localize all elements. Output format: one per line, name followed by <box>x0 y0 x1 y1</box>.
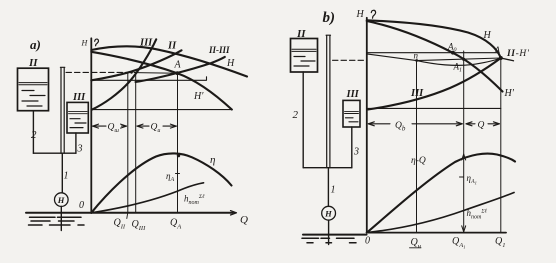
horizontal upper level line b <box>367 52 498 54</box>
svg-text:II: II <box>167 41 177 52</box>
guide line Qn <box>416 61 418 233</box>
svg-text:Н: Н <box>483 30 492 41</box>
guide line QIII <box>135 73 137 213</box>
pump curve H a <box>91 46 247 76</box>
pipe 3 <box>75 133 77 153</box>
svg-text:hпотΣℓ: hпотΣℓ <box>184 194 205 207</box>
ground / water line b <box>303 234 367 236</box>
line II wedge to p <box>367 54 417 61</box>
svg-text:п: п <box>414 51 419 61</box>
water hatching b <box>302 238 356 243</box>
x-axis arrowhead <box>226 212 235 214</box>
svg-text:ηА1: ηА1 <box>467 173 477 186</box>
svg-text:Н′: Н′ <box>193 91 204 102</box>
dashed level line b <box>333 59 367 61</box>
tank II water dashes <box>22 91 45 107</box>
svg-text:Qи: Qи <box>151 123 161 135</box>
junction manifold wire b <box>303 167 352 169</box>
svg-text:1: 1 <box>331 185 336 196</box>
pipe 1 lower b <box>327 168 329 207</box>
x-axis b <box>367 232 506 234</box>
svg-text:3: 3 <box>77 144 83 155</box>
tank III water dashes <box>70 119 86 128</box>
svg-text:А: А <box>174 60 182 71</box>
suction pipe <box>60 206 62 230</box>
pipe 3 b <box>351 127 353 168</box>
svg-text:Q: Q <box>240 214 248 226</box>
svg-text:Н: Н <box>324 209 332 219</box>
curve II <box>91 50 181 80</box>
tank II b <box>291 39 318 73</box>
water hatching a <box>29 217 85 225</box>
svg-text:0: 0 <box>79 200 84 211</box>
horizontal line level II <box>91 77 206 81</box>
dashed level line from pipe top <box>66 71 136 73</box>
eta point dot <box>177 154 180 157</box>
tank II <box>18 68 49 111</box>
svg-text:QII: QII <box>114 218 126 231</box>
svg-text:А1: А1 <box>453 62 463 74</box>
pipe 1 lower <box>61 153 63 193</box>
pump curve H b <box>367 20 501 58</box>
svg-text:III: III <box>139 38 153 49</box>
svg-text:III: III <box>72 92 86 103</box>
losses curve h_pot <box>91 183 203 213</box>
arrow row QIII <box>93 125 107 127</box>
svg-text:Q: Q <box>478 121 485 131</box>
tank III water surface <box>69 112 88 114</box>
svg-text:Н′: Н′ <box>504 88 515 99</box>
svg-text:η: η <box>210 154 215 166</box>
svg-text:III: III <box>410 88 424 99</box>
svg-text:II-Н′: II-Н′ <box>506 49 530 59</box>
junction manifold wire <box>33 152 76 154</box>
level line to point A <box>136 72 178 75</box>
pump circle b <box>322 206 336 220</box>
guide line QA <box>177 73 179 213</box>
losses curve h_pot b <box>367 193 514 233</box>
svg-text:Н: Н <box>57 195 65 205</box>
svg-text:Qш: Qш <box>108 123 120 135</box>
suction pipe b <box>328 220 330 244</box>
svg-text:QА: QА <box>170 218 181 231</box>
svg-text:2: 2 <box>293 109 299 121</box>
svg-text:Н: Н <box>356 9 365 20</box>
ground / water line + x-axis baseline <box>26 212 233 214</box>
y-axis hook arrow b <box>371 10 375 18</box>
FIGURE a) <box>18 37 237 231</box>
line p to A <box>417 58 501 61</box>
svg-text:А: А <box>494 45 501 55</box>
arrow row QII <box>137 125 149 127</box>
guide line Q1 <box>500 58 502 233</box>
reduced curve H' <box>91 52 232 110</box>
svg-text:Н: Н <box>81 39 89 48</box>
tank III <box>67 102 88 133</box>
tank III b water dashes <box>346 118 359 122</box>
horizontal level III line b <box>367 107 501 109</box>
point A0 dot <box>451 51 455 55</box>
arrow row Q <box>466 123 475 125</box>
svg-text:hпотΣℓ: hпотΣℓ <box>467 208 488 221</box>
svg-text:0: 0 <box>365 236 370 247</box>
GRAPH a) <box>66 38 248 233</box>
arrow row Qb <box>368 123 390 125</box>
tick label Q_n underline <box>410 247 422 249</box>
combined tail II-H' <box>501 58 514 61</box>
point A1 dot <box>462 58 465 61</box>
pipe 1 riser (double line) <box>60 67 64 153</box>
reduced curve H' b <box>367 21 503 92</box>
tank II water surface <box>19 83 47 85</box>
svg-text:ηА: ηА <box>166 171 174 183</box>
pump circle a <box>55 193 69 207</box>
svg-text:II-III: II-III <box>208 45 230 55</box>
point A dot b <box>499 56 503 60</box>
svg-text:1: 1 <box>64 171 69 182</box>
y-axis a <box>90 38 92 213</box>
svg-text:Qb: Qb <box>395 121 406 133</box>
svg-text:а): а) <box>30 37 41 52</box>
pipe 2 b <box>302 72 304 168</box>
svg-text:QА1: QА1 <box>452 236 465 250</box>
pipe 2 <box>32 111 34 154</box>
efficiency curve eta b <box>367 154 515 233</box>
svg-text:Q1: Q1 <box>495 236 505 249</box>
svg-text:II: II <box>28 57 38 69</box>
node knot II-III crossing <box>130 71 133 74</box>
svg-text:2: 2 <box>31 129 37 141</box>
tank III b water surface <box>345 111 359 113</box>
svg-text:III: III <box>346 89 360 100</box>
svg-text:b): b) <box>323 10 336 26</box>
y-axis hook arrow <box>95 39 99 46</box>
pipe 1 riser b (double line) <box>326 35 330 168</box>
tank III b <box>343 100 360 127</box>
efficiency curve eta <box>91 153 231 212</box>
y-axis b <box>366 18 368 233</box>
label eta_A1 with tick <box>460 176 464 178</box>
point A dot <box>176 71 180 75</box>
FIGURE b) schematic <box>291 10 367 245</box>
svg-text:Н: Н <box>226 58 235 69</box>
combined curve II-III <box>136 57 225 82</box>
combined curve II-H' sagging <box>417 58 501 65</box>
GRAPH b) <box>333 9 530 250</box>
svg-text:QIII: QIII <box>132 219 147 232</box>
svg-text:η-Q: η-Q <box>411 156 426 166</box>
tank II b water dashes <box>294 57 315 67</box>
vertical measure line eta_A1 <box>463 51 465 233</box>
label eta_A with tick <box>176 173 180 175</box>
horizontal line level III <box>91 109 232 111</box>
node p dot <box>415 59 418 62</box>
guide line QII <box>127 73 129 213</box>
curve III b <box>368 58 501 110</box>
tank II b water surface <box>292 49 316 51</box>
svg-text:3: 3 <box>353 147 359 158</box>
curve III <box>92 39 157 110</box>
